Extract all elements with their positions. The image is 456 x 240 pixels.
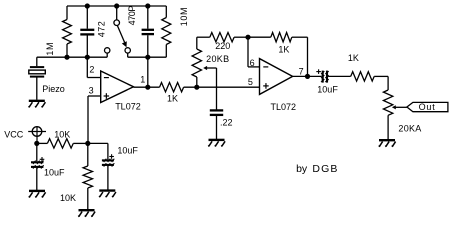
svg-text:VCC: VCC xyxy=(4,129,24,139)
svg-text:3: 3 xyxy=(89,85,94,95)
svg-text:10uF: 10uF xyxy=(117,146,138,156)
node 1M-bottom xyxy=(64,55,69,60)
svg-text:1K: 1K xyxy=(278,44,289,54)
svg-text:1K: 1K xyxy=(348,53,359,63)
resistor R 10M xyxy=(162,6,171,57)
svg-text:DGB: DGB xyxy=(312,163,338,175)
op-amp U1 TL072 xyxy=(101,71,134,103)
capacitor C 470P xyxy=(142,6,154,57)
node A xyxy=(194,85,199,90)
svg-text:20KB: 20KB xyxy=(206,54,229,64)
resistor R 1K a xyxy=(160,83,184,92)
label 1K b xyxy=(278,44,289,54)
connector Out xyxy=(407,102,448,111)
wire to 1K c xyxy=(328,75,351,77)
pot 20KA xyxy=(383,76,392,139)
wire top rail xyxy=(67,5,166,7)
resistor R 1K c xyxy=(351,72,388,81)
label 220 xyxy=(215,41,230,51)
svg-text:Piezo: Piezo xyxy=(42,84,65,94)
switch SW1 xyxy=(105,6,131,57)
svg-text:10uF: 10uF xyxy=(44,168,65,178)
label pin 7 xyxy=(299,66,304,76)
resistor R 10K bottom xyxy=(83,143,92,209)
ground .22 xyxy=(208,140,225,146)
wire fb-rail-left xyxy=(37,56,107,58)
label pin 1 xyxy=(140,74,145,84)
wire pin2 xyxy=(87,57,100,77)
label 10K bottom xyxy=(60,193,76,203)
svg-text:5: 5 xyxy=(248,77,253,87)
capacitor C 472 xyxy=(80,6,94,57)
resistor R 1M xyxy=(63,6,72,57)
resistor R 10K top xyxy=(37,139,88,148)
svg-text:220: 220 xyxy=(215,41,230,51)
label 1M xyxy=(45,42,55,56)
label Piezo xyxy=(42,84,65,94)
label 472 xyxy=(97,21,107,38)
label 10M xyxy=(179,7,189,26)
pot 20KA wiper xyxy=(392,105,407,109)
capacitor C 10uF right xyxy=(102,154,114,190)
label 10K top xyxy=(54,130,70,140)
capacitor C .22 xyxy=(210,110,223,139)
wire U1-out xyxy=(134,86,160,88)
node 472-top xyxy=(85,3,90,8)
wire fb-rail-right xyxy=(128,56,167,58)
svg-text:10K: 10K xyxy=(60,193,76,203)
label 1K c xyxy=(348,53,359,63)
node switch-top xyxy=(114,3,119,8)
resistor R 1K b xyxy=(248,33,308,77)
wire pin6 xyxy=(248,37,260,67)
svg-text:Out: Out xyxy=(419,102,436,112)
label 10uF left xyxy=(44,168,65,178)
svg-text:.22: .22 xyxy=(220,118,233,128)
svg-text:1: 1 xyxy=(140,74,145,84)
node fb-out xyxy=(145,55,150,60)
svg-text:20KA: 20KA xyxy=(398,123,421,133)
label pin 2 xyxy=(89,65,94,75)
node pin2-junction xyxy=(85,55,90,60)
label .22 xyxy=(220,118,233,128)
svg-text:472: 472 xyxy=(97,21,107,38)
label pin 5 xyxy=(248,77,253,87)
power VCC xyxy=(28,127,46,144)
ground piezo xyxy=(29,101,46,107)
node vcc xyxy=(34,141,39,146)
svg-text:1M: 1M xyxy=(45,42,55,56)
wire bias-to-cap2 xyxy=(88,143,108,159)
capacitor C 10uF coupling xyxy=(316,69,328,82)
label 20KA xyxy=(398,123,421,133)
wire to pin5 xyxy=(184,86,260,88)
ground 10K bottom xyxy=(78,210,95,216)
svg-text:10M: 10M xyxy=(179,7,189,26)
capacitor C 10uF left xyxy=(31,143,44,190)
piezo element xyxy=(29,57,46,100)
wire U2-out xyxy=(293,75,322,77)
label 10uF coupling xyxy=(317,85,338,95)
node 470P-top xyxy=(145,3,150,8)
node out2 xyxy=(305,74,310,79)
ground 10uF left xyxy=(29,191,46,197)
op-amp U2 TL072 xyxy=(260,59,293,95)
label Out xyxy=(419,102,436,112)
resistor R 220 xyxy=(210,33,248,42)
label TL072 U2 xyxy=(271,102,297,112)
label by DGB xyxy=(296,163,338,175)
svg-text:470P: 470P xyxy=(127,6,137,26)
svg-text:10uF: 10uF xyxy=(317,85,338,95)
pot 20KB wiper xyxy=(203,66,216,110)
wire pin3 xyxy=(88,96,101,143)
node bias xyxy=(85,141,90,146)
node B xyxy=(245,35,250,40)
label pin 3 xyxy=(89,85,94,95)
label 470P xyxy=(127,6,137,26)
wire fb-to-output xyxy=(147,57,149,87)
ground 20KA xyxy=(379,140,396,146)
svg-text:TL072: TL072 xyxy=(271,102,297,112)
label TL072 U1 xyxy=(115,102,141,112)
label 1K a xyxy=(167,94,178,104)
label 10uF right xyxy=(117,146,138,156)
ground 10uF right xyxy=(99,191,116,197)
label pin 6 xyxy=(250,58,255,68)
svg-text:6: 6 xyxy=(250,58,255,68)
svg-text:10K: 10K xyxy=(54,130,70,140)
svg-text:by: by xyxy=(296,163,308,175)
node out1 xyxy=(145,85,150,90)
label 20KB xyxy=(206,54,229,64)
svg-text:1K: 1K xyxy=(167,94,178,104)
svg-text:TL072: TL072 xyxy=(115,102,141,112)
label VCC xyxy=(4,129,24,139)
svg-text:2: 2 xyxy=(89,65,94,75)
svg-text:7: 7 xyxy=(299,66,304,76)
pot 20KB xyxy=(192,37,210,87)
